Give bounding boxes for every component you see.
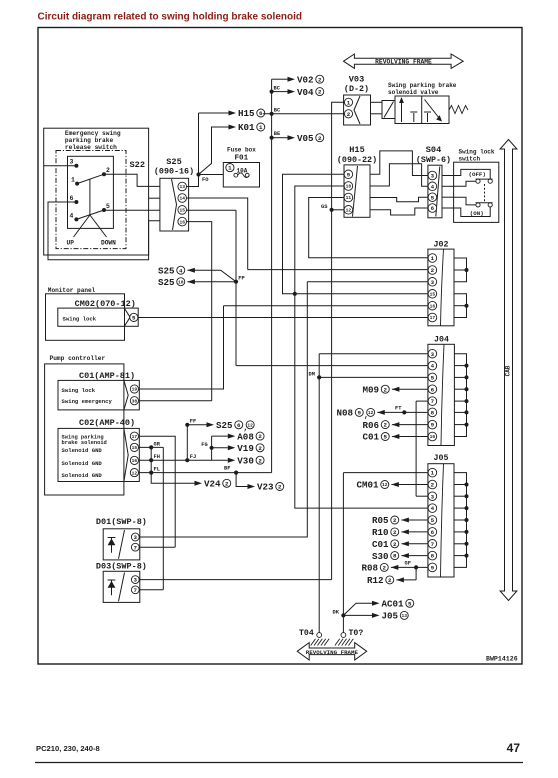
svg-text:V04: V04 bbox=[297, 87, 314, 98]
svg-text:J05: J05 bbox=[434, 454, 449, 463]
svg-text:9: 9 bbox=[347, 171, 351, 178]
svg-text:R06: R06 bbox=[363, 420, 380, 431]
svg-text:5: 5 bbox=[384, 434, 388, 441]
svg-text:1: 1 bbox=[259, 124, 263, 131]
svg-text:10: 10 bbox=[430, 434, 436, 440]
svg-text:S25: S25 bbox=[158, 277, 175, 288]
svg-text:CAB: CAB bbox=[505, 365, 512, 376]
svg-text:M09: M09 bbox=[363, 384, 380, 395]
svg-text:Swing emergency: Swing emergency bbox=[62, 398, 113, 405]
svg-text:16: 16 bbox=[430, 303, 436, 309]
svg-text:2: 2 bbox=[393, 529, 397, 536]
svg-text:FF: FF bbox=[190, 418, 196, 424]
svg-text:5: 5 bbox=[408, 600, 412, 607]
svg-text:T0?: T0? bbox=[349, 629, 364, 638]
svg-text:17: 17 bbox=[132, 434, 138, 440]
svg-text:6: 6 bbox=[431, 529, 435, 536]
svg-text:5: 5 bbox=[431, 517, 435, 524]
svg-text:2: 2 bbox=[384, 422, 388, 429]
svg-text:REVOLVING FRAME: REVOLVING FRAME bbox=[375, 59, 432, 66]
svg-text:4: 4 bbox=[179, 267, 183, 274]
svg-text:J05: J05 bbox=[382, 611, 399, 622]
svg-text:DK: DK bbox=[333, 610, 340, 616]
svg-text:6: 6 bbox=[237, 422, 241, 429]
svg-text:GS: GS bbox=[321, 204, 328, 210]
svg-text:6: 6 bbox=[70, 195, 74, 202]
svg-text:7: 7 bbox=[431, 398, 435, 405]
svg-text:(ON): (ON) bbox=[470, 210, 484, 217]
svg-text:S04: S04 bbox=[426, 145, 441, 155]
svg-text:16: 16 bbox=[179, 219, 185, 225]
svg-text:15: 15 bbox=[132, 445, 138, 451]
svg-text:C01: C01 bbox=[372, 539, 389, 550]
svg-text:5: 5 bbox=[431, 194, 435, 201]
svg-text:2: 2 bbox=[431, 482, 435, 489]
svg-text:D03(SWP-8): D03(SWP-8) bbox=[96, 562, 147, 572]
svg-text:BWP14126: BWP14126 bbox=[486, 656, 518, 663]
svg-text:DM: DM bbox=[309, 372, 315, 378]
svg-text:8: 8 bbox=[431, 553, 435, 560]
svg-text:GF: GF bbox=[405, 561, 411, 567]
svg-text:CM02(070-12): CM02(070-12) bbox=[75, 299, 136, 309]
svg-text:12: 12 bbox=[247, 423, 253, 429]
svg-text:REVOLVING FRAME: REVOLVING FRAME bbox=[306, 649, 359, 656]
svg-text:2: 2 bbox=[225, 480, 229, 487]
svg-text:10: 10 bbox=[178, 279, 184, 285]
svg-text:12: 12 bbox=[346, 208, 352, 214]
svg-text:PC210, 230, 240-8: PC210, 230, 240-8 bbox=[36, 744, 100, 753]
svg-text:GR: GR bbox=[154, 441, 161, 447]
svg-text:1: 1 bbox=[431, 255, 435, 262]
svg-text:T04: T04 bbox=[299, 629, 314, 638]
svg-text:FH: FH bbox=[154, 454, 160, 460]
svg-text:15: 15 bbox=[430, 292, 436, 298]
svg-text:4: 4 bbox=[70, 213, 74, 220]
svg-text:2: 2 bbox=[431, 267, 435, 274]
svg-text:solenoid valve: solenoid valve bbox=[388, 89, 439, 96]
svg-text:13: 13 bbox=[179, 184, 185, 190]
svg-text:38: 38 bbox=[132, 398, 138, 404]
svg-text:C01(AMP-81): C01(AMP-81) bbox=[79, 371, 135, 381]
svg-text:AC01: AC01 bbox=[382, 599, 405, 610]
svg-text:Fuse box: Fuse box bbox=[227, 147, 256, 154]
svg-text:9: 9 bbox=[431, 422, 435, 429]
svg-text:2: 2 bbox=[383, 565, 387, 572]
svg-text:3: 3 bbox=[70, 159, 74, 166]
svg-text:2: 2 bbox=[318, 135, 322, 142]
svg-text:S30: S30 bbox=[372, 551, 389, 562]
svg-text:Solenoid GND: Solenoid GND bbox=[62, 447, 103, 454]
svg-text:DOWN: DOWN bbox=[101, 240, 116, 247]
svg-text:3: 3 bbox=[431, 351, 435, 358]
svg-text:2: 2 bbox=[384, 386, 388, 393]
svg-text:2: 2 bbox=[318, 89, 322, 96]
svg-text:5: 5 bbox=[431, 375, 435, 382]
svg-text:2: 2 bbox=[347, 111, 351, 118]
svg-text:release switch: release switch bbox=[65, 144, 117, 151]
svg-text:R05: R05 bbox=[372, 515, 389, 526]
svg-text:(090-16): (090-16) bbox=[154, 167, 194, 177]
svg-text:K01: K01 bbox=[238, 122, 255, 133]
svg-text:V02: V02 bbox=[297, 74, 314, 85]
svg-text:brake solenoid: brake solenoid bbox=[62, 440, 107, 446]
svg-text:6: 6 bbox=[431, 386, 435, 393]
svg-text:1: 1 bbox=[347, 99, 351, 106]
svg-text:3: 3 bbox=[431, 279, 435, 286]
svg-text:7: 7 bbox=[134, 587, 138, 594]
svg-text:47: 47 bbox=[507, 741, 521, 755]
svg-text:2: 2 bbox=[278, 484, 282, 491]
svg-text:19: 19 bbox=[132, 387, 138, 393]
svg-text:15: 15 bbox=[179, 208, 185, 214]
svg-text:V03: V03 bbox=[349, 75, 364, 85]
svg-text:(OFF): (OFF) bbox=[469, 171, 486, 178]
svg-text:2: 2 bbox=[258, 433, 262, 440]
svg-text:1: 1 bbox=[228, 165, 232, 172]
svg-text:parking brake: parking brake bbox=[65, 137, 114, 144]
svg-text:BC: BC bbox=[274, 85, 281, 91]
svg-text:BE: BE bbox=[274, 131, 281, 137]
svg-text:12: 12 bbox=[368, 410, 374, 416]
svg-text:16: 16 bbox=[132, 458, 138, 464]
svg-text:UP: UP bbox=[67, 240, 75, 247]
svg-text:9: 9 bbox=[431, 565, 435, 572]
svg-text:11: 11 bbox=[346, 195, 352, 201]
svg-text:R12: R12 bbox=[367, 575, 384, 586]
svg-text:S25: S25 bbox=[216, 420, 233, 431]
svg-text:2: 2 bbox=[258, 457, 262, 464]
svg-text:(D-2): (D-2) bbox=[344, 84, 369, 94]
svg-text:2: 2 bbox=[318, 76, 322, 83]
svg-text:BF: BF bbox=[224, 466, 230, 472]
svg-text:FJ: FJ bbox=[190, 454, 196, 460]
svg-text:FP: FP bbox=[238, 275, 244, 281]
svg-text:3: 3 bbox=[431, 173, 435, 180]
svg-text:4: 4 bbox=[431, 505, 435, 512]
svg-text:CM01: CM01 bbox=[357, 480, 380, 491]
svg-text:3: 3 bbox=[134, 577, 138, 584]
svg-text:V05: V05 bbox=[297, 133, 314, 144]
svg-text:6: 6 bbox=[431, 205, 435, 212]
svg-text:FT: FT bbox=[395, 406, 402, 412]
svg-text:FL: FL bbox=[154, 467, 160, 473]
svg-text:R08: R08 bbox=[362, 563, 379, 574]
svg-text:8: 8 bbox=[393, 553, 397, 560]
svg-text:7: 7 bbox=[431, 541, 435, 548]
svg-text:V30: V30 bbox=[237, 455, 254, 466]
svg-text:2: 2 bbox=[258, 445, 262, 452]
svg-text:10: 10 bbox=[346, 184, 352, 190]
svg-text:BC: BC bbox=[274, 107, 281, 113]
svg-text:9: 9 bbox=[358, 410, 362, 417]
svg-text:H15: H15 bbox=[238, 108, 255, 119]
svg-text:Pump controller: Pump controller bbox=[50, 355, 106, 362]
svg-text:7: 7 bbox=[134, 544, 138, 551]
svg-text:12: 12 bbox=[132, 470, 138, 476]
svg-text:F01: F01 bbox=[235, 155, 249, 163]
svg-text:5: 5 bbox=[106, 203, 110, 210]
svg-text:Swing lock: Swing lock bbox=[459, 148, 495, 155]
svg-text:(090-22): (090-22) bbox=[337, 155, 377, 165]
svg-text:S25: S25 bbox=[166, 157, 181, 167]
svg-text:S22: S22 bbox=[130, 160, 145, 170]
svg-text:V23: V23 bbox=[257, 482, 274, 493]
svg-text:2: 2 bbox=[393, 541, 397, 548]
svg-text:8: 8 bbox=[431, 410, 435, 417]
svg-text:Monitor panel: Monitor panel bbox=[48, 287, 96, 294]
svg-text:5: 5 bbox=[132, 315, 136, 322]
svg-text:Solenoid GND: Solenoid GND bbox=[62, 460, 103, 467]
svg-text:17: 17 bbox=[430, 315, 436, 321]
svg-text:N08: N08 bbox=[337, 408, 354, 419]
svg-text:V19: V19 bbox=[237, 443, 254, 454]
svg-text:Circuit diagram related to swi: Circuit diagram related to swing holding… bbox=[38, 12, 302, 23]
svg-text:V24: V24 bbox=[204, 479, 221, 490]
svg-text:(SWP-6): (SWP-6) bbox=[416, 155, 451, 165]
svg-text:4: 4 bbox=[431, 363, 435, 370]
svg-text:14: 14 bbox=[179, 196, 185, 202]
svg-text:1: 1 bbox=[71, 177, 75, 184]
svg-text:13: 13 bbox=[402, 613, 408, 619]
svg-text:A08: A08 bbox=[237, 431, 254, 442]
svg-text:C02(AMP-40): C02(AMP-40) bbox=[79, 418, 135, 428]
svg-text:2: 2 bbox=[388, 577, 392, 584]
svg-text:H15: H15 bbox=[349, 145, 364, 155]
svg-text:12: 12 bbox=[382, 482, 388, 488]
svg-text:FG: FG bbox=[201, 442, 207, 448]
svg-text:2: 2 bbox=[106, 167, 110, 174]
svg-text:C01: C01 bbox=[363, 432, 380, 443]
svg-text:J02: J02 bbox=[434, 241, 449, 250]
svg-text:S25: S25 bbox=[158, 265, 175, 276]
svg-text:switch: switch bbox=[459, 155, 481, 162]
svg-text:4: 4 bbox=[431, 183, 435, 190]
svg-text:1: 1 bbox=[431, 470, 435, 477]
svg-text:2: 2 bbox=[393, 517, 397, 524]
svg-text:6: 6 bbox=[259, 110, 263, 117]
svg-text:Swing lock: Swing lock bbox=[62, 387, 96, 394]
svg-text:Emergency swing: Emergency swing bbox=[65, 130, 121, 137]
svg-text:J04: J04 bbox=[434, 336, 449, 345]
svg-text:Swing lock: Swing lock bbox=[63, 315, 97, 322]
svg-text:R10: R10 bbox=[372, 527, 389, 538]
svg-text:3: 3 bbox=[431, 493, 435, 500]
svg-text:3: 3 bbox=[134, 534, 138, 541]
svg-text:Solenoid GND: Solenoid GND bbox=[62, 472, 103, 479]
svg-text:FO: FO bbox=[202, 177, 209, 183]
svg-text:D01(SWP-8): D01(SWP-8) bbox=[96, 517, 147, 527]
